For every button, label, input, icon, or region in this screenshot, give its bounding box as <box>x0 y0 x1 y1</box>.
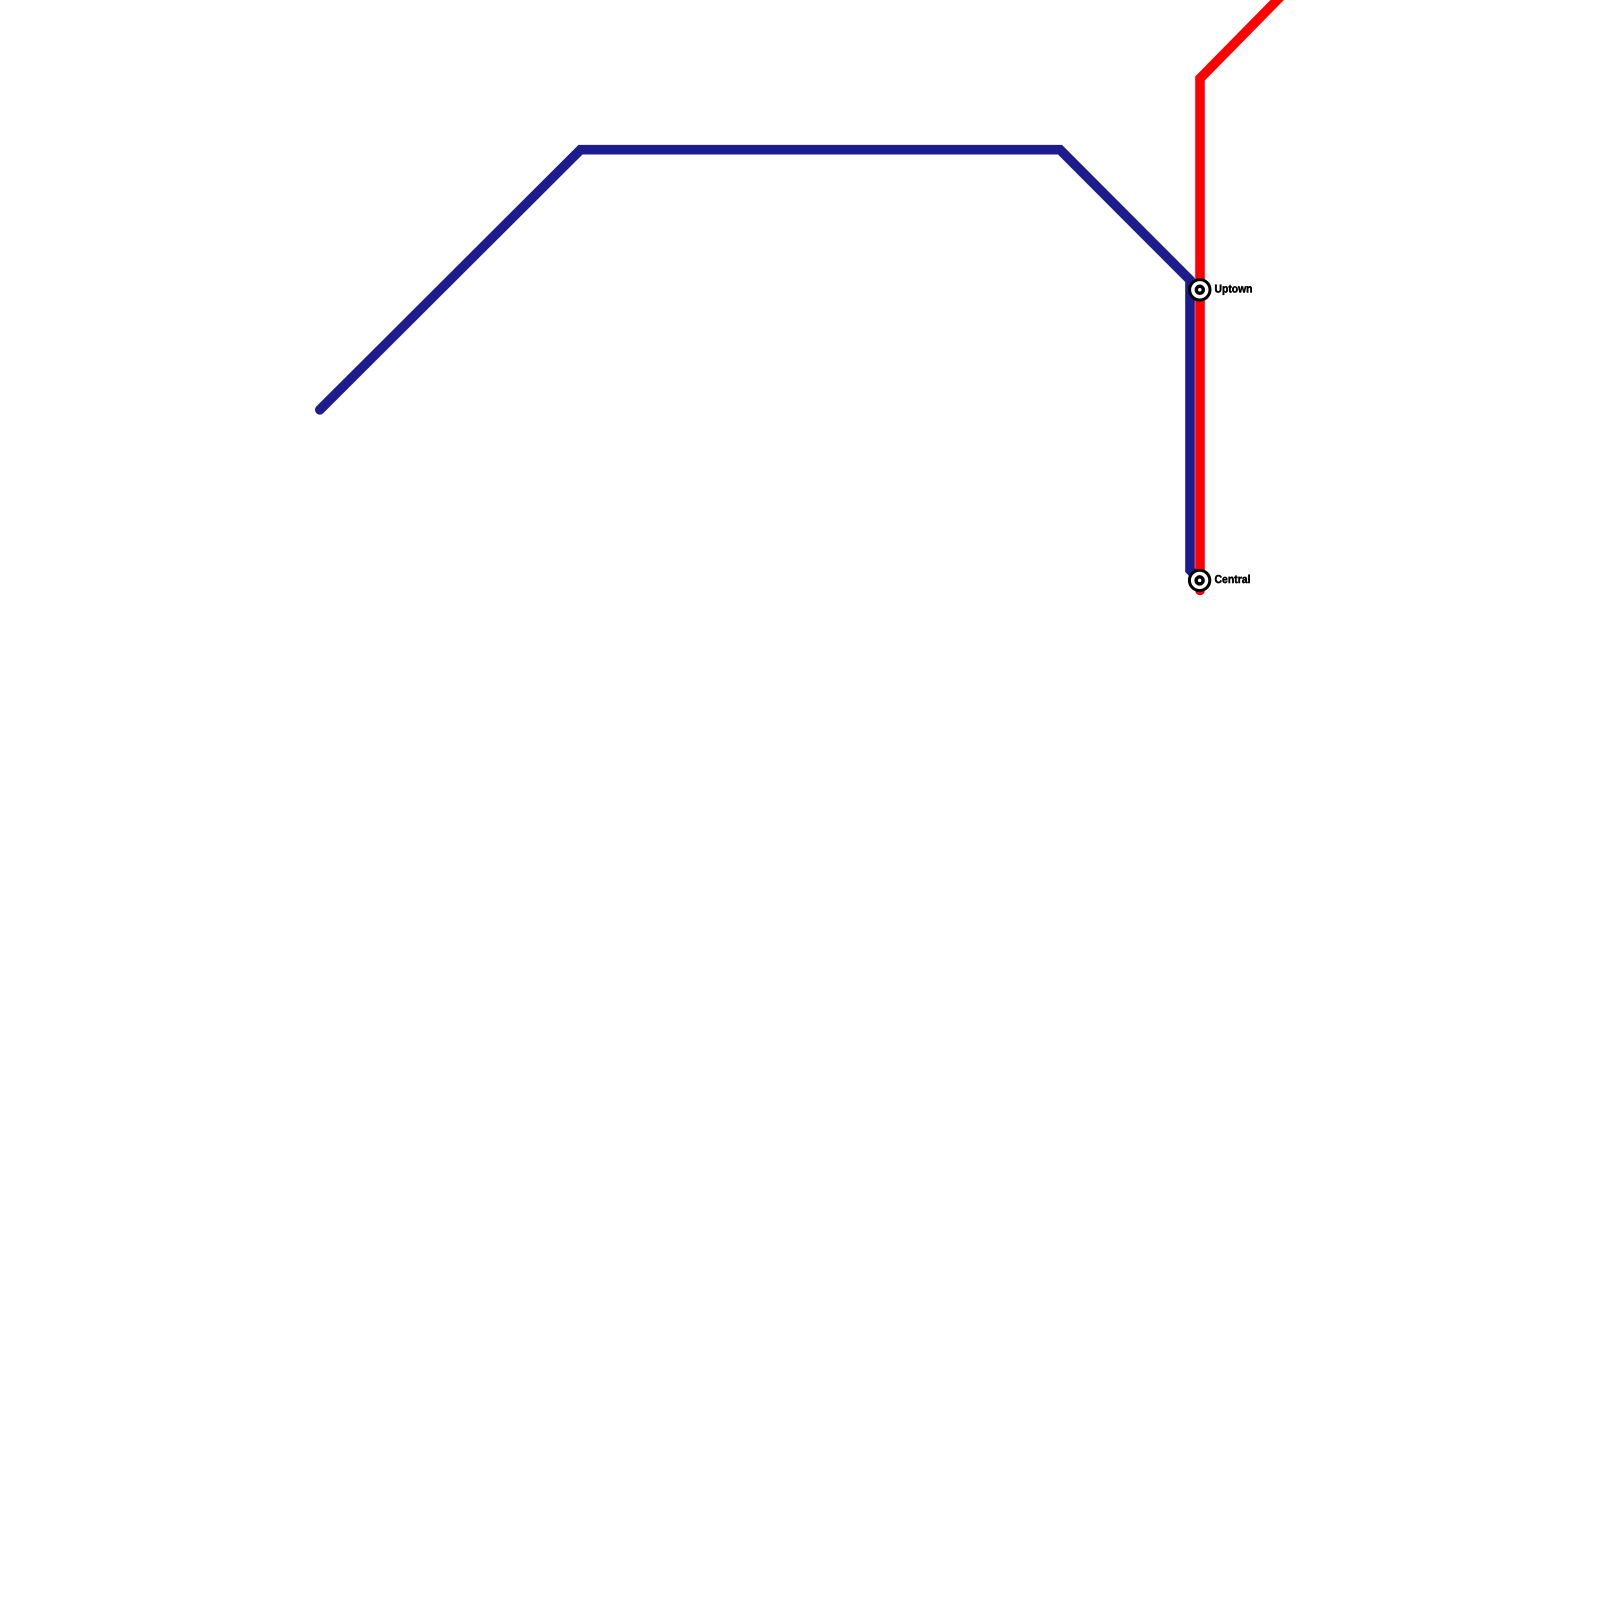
station Central marker <box>1189 570 1209 590</box>
blue line route <box>320 150 1200 580</box>
svg-text:Central: Central <box>1215 574 1251 586</box>
svg-text:Uptown: Uptown <box>1215 284 1253 296</box>
station Uptown marker <box>1190 280 1210 300</box>
red line route <box>1200 0 1290 591</box>
